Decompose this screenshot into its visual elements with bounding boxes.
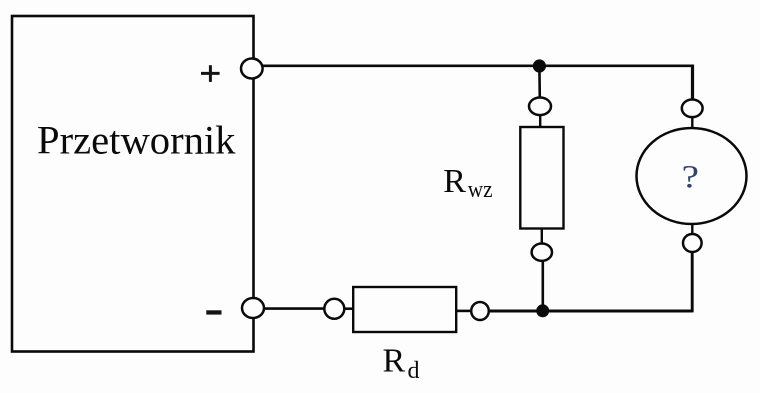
svg-text:?: ? <box>682 158 699 195</box>
svg-text:Przetwornik: Przetwornik <box>37 118 236 163</box>
svg-text:R: R <box>383 342 406 379</box>
svg-text:d: d <box>408 358 420 384</box>
svg-text:R: R <box>443 163 466 200</box>
svg-text:wz: wz <box>468 177 493 203</box>
